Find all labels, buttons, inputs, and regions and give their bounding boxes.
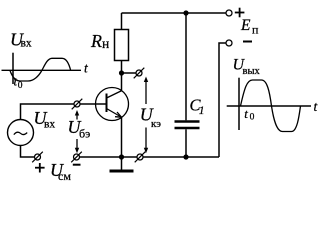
transistor VT1 emitter lead with arrow xyxy=(107,109,123,118)
wire resistor top to top rail xyxy=(121,13,123,30)
terminal collector output slashed xyxy=(134,68,145,79)
wire collector vertical to junction xyxy=(121,73,123,91)
svg-text:бэ: бэ xyxy=(79,127,90,141)
terminal E_p plus xyxy=(226,10,232,16)
output waveform horizontal axis xyxy=(227,105,311,107)
junction dot C1 bottom xyxy=(183,154,188,159)
wire E_p minus to bottom rail xyxy=(219,43,226,157)
svg-text:кэ: кэ xyxy=(151,118,161,130)
junction dot collector node xyxy=(119,70,124,75)
svg-text:н: н xyxy=(102,36,109,51)
ground symbol xyxy=(110,157,134,171)
input waveform vertical axis xyxy=(12,53,14,84)
resistor R_n label xyxy=(90,31,109,51)
output waveform vertical axis xyxy=(238,78,240,130)
wire emitter vertical to bottom rail xyxy=(121,117,123,157)
wire top rail xyxy=(122,12,226,14)
svg-text:1: 1 xyxy=(199,105,205,117)
wire resistor bottom to collector junction xyxy=(121,61,123,74)
arrow U_be double-headed xyxy=(75,110,79,153)
output waveform sine curve xyxy=(241,80,301,132)
minus sign of E_p xyxy=(243,41,252,43)
AC source label U_vx xyxy=(34,108,56,131)
svg-text:вх: вх xyxy=(44,119,55,131)
arrow U_ke double-headed xyxy=(144,77,148,154)
input waveform t0 label xyxy=(14,74,23,92)
terminal input (base) slashed xyxy=(72,99,83,110)
capacitor C1 top plate xyxy=(175,120,200,123)
input waveform sine curve xyxy=(10,58,71,81)
label E_p xyxy=(240,17,259,37)
svg-text:см: см xyxy=(58,169,71,183)
plus sign of E_p xyxy=(235,8,245,18)
output waveform label U_vyh xyxy=(233,57,261,78)
resistor R_n body xyxy=(115,30,129,61)
minus sign of U_sm xyxy=(73,164,81,166)
AC source G1 sine symbol xyxy=(14,132,27,134)
bottom rail wire bias to right corner xyxy=(80,156,219,158)
junction dot emitter bottom xyxy=(119,154,124,159)
svg-text:0: 0 xyxy=(250,113,255,123)
svg-text:вых: вых xyxy=(243,66,261,77)
wire source bottom to bias plus terminal xyxy=(21,146,35,158)
input waveform label U_vx xyxy=(10,30,32,50)
AC source G1 circle xyxy=(8,120,34,146)
svg-text:t: t xyxy=(244,106,248,121)
wire source top to base xyxy=(21,104,107,120)
capacitor C1 label xyxy=(190,96,205,118)
label U_be xyxy=(68,117,91,141)
wire C1 bottom vertical xyxy=(185,129,187,157)
transistor VT1 base bar xyxy=(106,94,108,113)
svg-text:E: E xyxy=(240,17,251,34)
terminal bias plus slashed xyxy=(32,152,43,163)
wire C1 top vertical xyxy=(185,13,187,120)
terminal E_p minus xyxy=(226,40,232,46)
output waveform t0 label xyxy=(244,106,254,123)
svg-text:0: 0 xyxy=(18,81,23,91)
transistor VT1 collector lead xyxy=(107,91,123,99)
label U_ke xyxy=(140,105,161,131)
svg-text:вх: вх xyxy=(21,38,32,50)
junction dot top rail / C1 xyxy=(183,10,188,15)
terminal emitter rail slashed xyxy=(135,152,146,163)
label U_sm xyxy=(50,160,71,183)
terminal bias minus slashed xyxy=(71,152,82,163)
svg-text:R: R xyxy=(90,31,102,51)
plus sign of U_sm xyxy=(35,163,45,173)
svg-text:п: п xyxy=(252,23,259,37)
transistor VT1 circle xyxy=(96,88,129,121)
input waveform horizontal axis t xyxy=(2,69,82,71)
capacitor C1 bottom plate xyxy=(175,127,200,130)
wire collector tap to output terminal xyxy=(122,72,136,74)
